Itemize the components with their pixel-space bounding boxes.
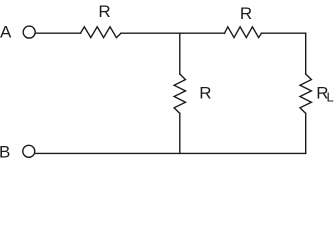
resistor R3 zigzag (middle): [174, 74, 185, 113]
svg-text:A: A: [0, 23, 12, 42]
wire R1 to R2 through node at x=180: [121, 32, 225, 34]
wire middle vertical lower: [179, 113, 181, 153]
svg-text:R: R: [199, 84, 211, 103]
terminal A circle: [23, 26, 35, 38]
wire right vertical upper: [305, 33, 307, 74]
svg-text:R: R: [240, 4, 252, 23]
resistor R2: [225, 27, 262, 38]
svg-text:L: L: [327, 90, 334, 105]
svg-text:B: B: [0, 142, 10, 161]
svg-text:R: R: [98, 2, 110, 21]
wire right vertical lower: [305, 113, 307, 153]
wire R2 to top-right corner: [262, 32, 306, 34]
wire middle vertical upper: [179, 33, 181, 74]
wire A to R1: [36, 32, 81, 34]
terminal B circle: [23, 145, 35, 157]
resistor RL zigzag: [300, 74, 311, 113]
resistor R1: [81, 27, 122, 38]
wire B bottom rail: [36, 152, 306, 154]
